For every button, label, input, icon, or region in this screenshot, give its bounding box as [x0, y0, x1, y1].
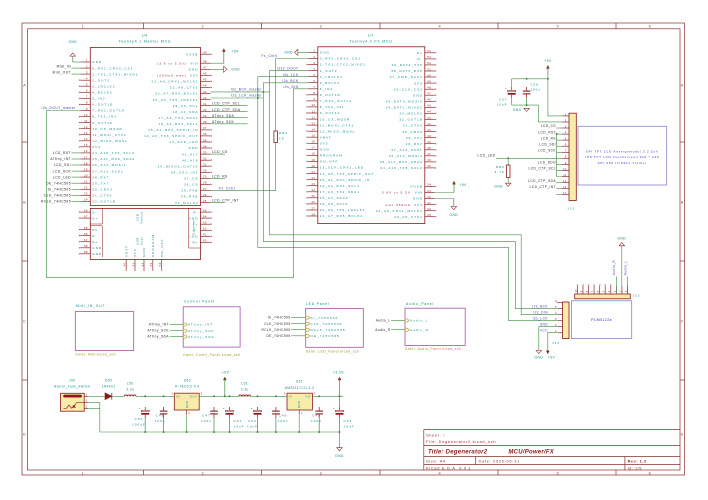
svg-text:2: 2 — [202, 24, 205, 28]
svg-text:GND: GND — [494, 185, 503, 189]
svg-text:10: 10 — [84, 113, 88, 117]
svg-text:GND: GND — [449, 213, 458, 217]
svg-text:29: 29 — [427, 213, 431, 217]
svg-text:C47: C47 — [202, 413, 211, 417]
svg-text:35_FXB: 35_FXB — [181, 189, 198, 193]
svg-text:D-: D- — [418, 57, 423, 61]
svg-text:19: 19 — [311, 158, 315, 162]
svg-text:45: 45 — [203, 78, 207, 82]
svg-text:7: 7 — [313, 85, 315, 89]
svg-text:9: 9 — [86, 107, 88, 111]
svg-text:38_CS1_IN1: 38_CS1_IN1 — [171, 171, 199, 175]
junction GND rail — [318, 431, 320, 433]
svg-text:Ethernet: Ethernet — [192, 219, 196, 234]
junction C49 — [318, 395, 320, 397]
svg-text:17: 17 — [84, 155, 88, 159]
title block — [424, 430, 680, 471]
svg-text:Device: Device — [140, 211, 144, 223]
svg-text:3: 3 — [86, 399, 88, 403]
svg-text:25: 25 — [311, 194, 315, 198]
svg-text:U50: U50 — [184, 379, 191, 383]
svg-text:Audio_Panel: Audio_Panel — [406, 302, 434, 306]
capacitor C49 100n — [311, 407, 323, 432]
label RCLK_74HC595 at LED Panel — [261, 328, 305, 332]
svg-text:A: A — [681, 83, 684, 87]
svg-text:I2s_BCK: I2s_BCK — [532, 304, 548, 308]
svg-text:20: 20 — [311, 164, 315, 168]
svg-text:64: 64 — [203, 214, 207, 218]
svg-text:46: 46 — [203, 72, 207, 76]
svg-text:3.6V to 5.5V: 3.6V to 5.5V — [382, 191, 411, 195]
svg-text:R-: R- — [193, 210, 198, 214]
svg-text:J12: J12 — [633, 294, 641, 298]
svg-text:3V3: 3V3 — [320, 142, 329, 146]
wire caps bottom rail to J11 pin2 — [512, 98, 562, 122]
svg-text:37_CS: 37_CS — [184, 177, 198, 181]
svg-text:GND: GND — [297, 401, 301, 408]
svg-text:53: 53 — [427, 55, 431, 59]
svg-text:(250mA max): (250mA max) — [157, 74, 186, 78]
ground GND above J12 — [617, 236, 626, 245]
svg-text:D: D — [23, 432, 26, 436]
wire I2s_DOUT_master : U4 pin9 to U7 pin7 I2s_DIN — [46, 89, 307, 278]
label LCD_CTP_SDA at J11 pin 12 — [528, 179, 562, 183]
svg-text:SI_74HC595: SI_74HC595 — [48, 188, 71, 192]
svg-text:3.3u: 3.3u — [241, 387, 249, 391]
wire U50 OUT to +5V rail — [199, 395, 343, 397]
svg-text:D+: D+ — [417, 51, 423, 55]
mcu U4 Teensy4.1 Master MCU — [79, 34, 212, 271]
svg-text:ATtiny_SDA: ATtiny_SDA — [188, 335, 215, 339]
svg-text:36: 36 — [427, 158, 431, 162]
svg-text:LCD_SCK: LCD_SCK — [538, 149, 556, 153]
svg-text:RCLK_74HC595: RCLK_74HC595 — [311, 328, 346, 332]
svg-text:23: 23 — [84, 192, 88, 196]
svg-text:29_TX7: 29_TX7 — [92, 181, 109, 185]
svg-text:31: 31 — [427, 201, 431, 205]
svg-text:GND: GND — [185, 401, 189, 408]
wire U51 GND to rail — [298, 414, 300, 432]
svg-text:1K: 1K — [279, 136, 285, 140]
svg-text:2_OUT2: 2_OUT2 — [320, 69, 338, 73]
svg-text:LCD_SDO: LCD_SDO — [538, 161, 556, 165]
svg-text:Audio_L: Audio_L — [623, 260, 627, 275]
svg-text:6: 6 — [649, 24, 652, 28]
svg-text:27_A13_SCK1: 27_A13_SCK1 — [92, 169, 123, 173]
svg-text:24: 24 — [84, 198, 88, 202]
svg-text:40_A16: 40_A16 — [182, 158, 199, 162]
svg-text:11_MOSI_CTX1: 11_MOSI_CTX1 — [320, 123, 354, 127]
svg-text:6: 6 — [565, 143, 567, 147]
svg-text:6_OUT1D: 6_OUT1D — [320, 93, 341, 97]
svg-text:Audio_L: Audio_L — [410, 319, 428, 323]
svg-text:CLK_74HC595: CLK_74HC595 — [264, 322, 290, 326]
svg-text:14: 14 — [311, 128, 315, 132]
svg-text:max 250mA: max 250mA — [385, 203, 411, 207]
svg-text:+5V: +5V — [544, 59, 552, 63]
svg-text:27_A13_SCK1: 27_A13_SCK1 — [391, 148, 422, 152]
svg-text:44: 44 — [427, 110, 431, 114]
ground GND power rail — [335, 448, 344, 458]
svg-text:32_OUT1B: 32_OUT1B — [399, 118, 422, 122]
svg-text:3V3: 3V3 — [190, 74, 199, 78]
label LCD_SDI at J11 pin 6 — [539, 142, 562, 146]
svg-text:SI_74HC595: SI_74HC595 — [268, 316, 291, 320]
svg-text:42: 42 — [203, 96, 207, 100]
svg-text:Midi_OUT: Midi_OUT — [53, 70, 71, 74]
svg-text:18: 18 — [311, 152, 315, 156]
svg-text:(3.6 to 5.5v): (3.6 to 5.5v) — [157, 61, 187, 65]
svg-text:38: 38 — [203, 120, 207, 124]
svg-text:41_A17: 41_A17 — [182, 152, 199, 156]
svg-text:51: 51 — [427, 67, 431, 71]
svg-text:28_RX7: 28_RX7 — [92, 175, 109, 179]
svg-text:28_RX7: 28_RX7 — [406, 142, 423, 146]
svg-text:B: B — [23, 200, 26, 204]
svg-text:3V3: 3V3 — [414, 81, 423, 85]
svg-text:1: 1 — [86, 58, 88, 62]
svg-text:39_DAT2_TX5: 39_DAT2_TX5 — [392, 63, 423, 67]
label LCD_CS at J11 pin 3 — [541, 124, 562, 128]
label LCD_CTP_SCL — [211, 102, 248, 106]
svg-text:4_BCLK2: 4_BCLK2 — [92, 91, 112, 95]
svg-text:4: 4 — [608, 290, 611, 292]
junction +5V riser — [547, 78, 549, 80]
svg-text:+: + — [333, 406, 335, 410]
svg-text:Audio_R: Audio_R — [410, 328, 429, 332]
svg-text:55: 55 — [84, 226, 88, 230]
svg-text:5: 5 — [555, 305, 557, 309]
svg-text:RCLK_74HC595: RCLK_74HC595 — [261, 328, 290, 332]
power +5V rail riser — [222, 371, 230, 397]
svg-text:R+: R+ — [192, 241, 198, 245]
svg-text:62: 62 — [203, 227, 207, 231]
svg-text:RB3: RB3 — [279, 131, 288, 135]
svg-text:7: 7 — [86, 95, 88, 99]
svg-text:13: 13 — [563, 185, 567, 189]
svg-text:67: 67 — [84, 214, 88, 218]
svg-text:9: 9 — [313, 97, 315, 101]
svg-text:11: 11 — [312, 109, 316, 113]
svg-text:37: 37 — [427, 152, 431, 156]
svg-text:10_CS_MQSR: 10_CS_MQSR — [92, 127, 122, 131]
svg-text:Datei: LED_Panel.kicad_sch: Datei: LED_Panel.kicad_sch — [306, 349, 359, 353]
svg-text:+5V: +5V — [232, 50, 240, 54]
svg-text:3: 3 — [555, 317, 557, 321]
svg-text:VIN: VIN — [190, 61, 198, 65]
svg-text:C50: C50 — [135, 417, 144, 421]
junction J11 pin4 — [556, 133, 558, 135]
svg-text:14: 14 — [84, 137, 88, 141]
svg-text:GND: GND — [413, 197, 423, 201]
svg-text:LCD_CTP_INT: LCD_CTP_INT — [530, 185, 556, 189]
junction GND rail — [229, 431, 231, 433]
svg-text:+5V: +5V — [548, 356, 556, 360]
svg-text:LCD_SDI: LCD_SDI — [54, 163, 71, 167]
wire I2s_BCK_master U4 pin43 — [211, 91, 270, 93]
svg-text:1: 1 — [171, 392, 173, 396]
svg-text:2: 2 — [202, 471, 205, 475]
wire GND J12 pin2 — [621, 246, 623, 294]
label SI_74HC595 — [48, 188, 81, 192]
svg-text:4: 4 — [555, 311, 557, 315]
svg-text:1: 1 — [313, 49, 315, 53]
svg-text:33_MCLK2: 33_MCLK2 — [175, 201, 198, 205]
label LCD_RST — [53, 151, 80, 155]
svg-text:LCD_CTP_SDA: LCD_CTP_SDA — [528, 179, 556, 183]
svg-text:20_A6_TX5_LRCLK1: 20_A6_TX5_LRCLK1 — [320, 208, 366, 212]
svg-text:13_SCK_LED: 13_SCK_LED — [169, 140, 198, 144]
svg-text:Datei: Audio_Panel.kicad_sch: Datei: Audio_Panel.kicad_sch — [405, 347, 461, 351]
svg-text:100n: 100n — [530, 87, 541, 91]
ground GND below RB2 — [494, 183, 511, 188]
svg-text:36_CLK_CS2: 36_CLK_CS2 — [394, 87, 423, 91]
svg-text:40: 40 — [427, 134, 431, 138]
wire +5V rail to caps and J11 pin1 — [512, 79, 562, 116]
label ATtiny_SDA — [211, 114, 248, 118]
svg-text:16: 16 — [84, 149, 88, 153]
svg-text:59: 59 — [84, 250, 88, 254]
svg-text:29: 29 — [203, 175, 207, 179]
junction GND rail — [257, 431, 259, 433]
junction GND rail — [186, 431, 188, 433]
inductor L51 3.3u — [239, 381, 251, 396]
module PCM5122a note box — [571, 301, 631, 339]
svg-text:6: 6 — [597, 290, 600, 292]
svg-text:22_A8_CTX1: 22_A8_CTX1 — [394, 215, 423, 219]
svg-text:14_A0_TX3_SPDIF_OUT: 14_A0_TX3_SPDIF_OUT — [320, 172, 374, 176]
svg-text:12_MISO_MQSL: 12_MISO_MQSL — [320, 129, 356, 133]
svg-text:31_CTX3: 31_CTX3 — [403, 124, 423, 128]
svg-text:2: 2 — [86, 404, 88, 408]
svg-text:C46: C46 — [156, 413, 165, 417]
capacitor C57 10uF — [496, 79, 515, 107]
svg-text:52: 52 — [140, 262, 144, 266]
junction GND rail — [144, 431, 146, 433]
svg-text:32_OUT1B: 32_OUT1B — [92, 200, 115, 204]
inductor L50 3.3u — [124, 381, 136, 396]
capacitor C56 100n — [523, 82, 541, 98]
svg-text:9_OUT1C: 9_OUT1C — [92, 121, 113, 125]
svg-text:GND: GND — [68, 40, 77, 44]
connector J50 Barrel_Jack_Switch — [54, 379, 90, 412]
svg-text:18: 18 — [84, 161, 88, 165]
svg-text:D-: D- — [92, 234, 97, 238]
svg-text:50: 50 — [123, 262, 127, 266]
svg-text:3_LRCLK2: 3_LRCLK2 — [320, 75, 343, 79]
ground GND below J13 — [534, 350, 543, 359]
svg-text:18_A4_SDA0: 18_A4_SDA0 — [320, 196, 349, 200]
svg-text:D+: D+ — [92, 216, 98, 220]
svg-text:22: 22 — [311, 176, 315, 180]
wire rail to GND symbol — [339, 432, 341, 448]
svg-text:LCD_SCK: LCD_SCK — [53, 169, 72, 173]
junction C51 — [229, 395, 231, 397]
svg-text:33_MCLK2: 33_MCLK2 — [399, 112, 422, 116]
label LCD_LED wire to J11 pin8 — [478, 154, 563, 159]
svg-text:10: 10 — [575, 289, 578, 293]
svg-text:AMS1117CO-3.3: AMS1117CO-3.3 — [285, 386, 315, 390]
svg-text:LCD_RST: LCD_RST — [538, 130, 556, 134]
svg-text:C51: C51 — [234, 419, 243, 423]
svg-text:5: 5 — [557, 471, 560, 475]
wire I2s2_DOUT U7 pin4 to J13 pin4 — [270, 71, 559, 315]
svg-text:5_IN2: 5_IN2 — [92, 97, 105, 101]
svg-text:11: 11 — [84, 119, 88, 123]
svg-text:5: 5 — [86, 83, 88, 87]
svg-text:ATtiny_SCK: ATtiny_SCK — [147, 329, 169, 333]
no-connect J12 — [605, 285, 606, 286]
svg-text:7_RX2_OUT1A: 7_RX2_OUT1A — [320, 99, 353, 103]
wire U4 pin47 to GND — [211, 68, 224, 70]
svg-text:38: 38 — [427, 146, 431, 150]
svg-text:11_MOSI_CTX1: 11_MOSI_CTX1 — [92, 133, 126, 137]
svg-text:GND: GND — [189, 146, 199, 150]
svg-text:8: 8 — [565, 155, 567, 159]
svg-text:48: 48 — [427, 86, 431, 90]
svg-text:VUSB: VUSB — [186, 52, 198, 56]
svg-text:C48: C48 — [279, 413, 288, 417]
svg-text:Sheet: /: Sheet: / — [426, 432, 445, 437]
svg-text:19_A5_SCL0: 19_A5_SCL0 — [320, 202, 348, 206]
svg-text:ATtiny_INT: ATtiny_INT — [50, 157, 71, 161]
svg-text:47: 47 — [203, 66, 207, 70]
svg-text:VBAT: VBAT — [320, 135, 332, 139]
svg-text:21_A7_RX5_BCLK1: 21_A7_RX5_BCLK1 — [320, 214, 363, 218]
svg-text:24_A10_TX6_SCL2: 24_A10_TX6_SCL2 — [92, 151, 135, 155]
svg-text:33: 33 — [203, 150, 207, 154]
svg-text:OE_74HC595: OE_74HC595 — [46, 181, 71, 185]
svg-text:Audio_L: Audio_L — [376, 319, 391, 323]
label ATtiny_INT — [50, 157, 80, 161]
label LCD_CTP_INT at J11 pin 13 — [530, 185, 562, 189]
svg-text:3: 3 — [320, 24, 323, 28]
svg-text:27: 27 — [311, 206, 315, 210]
wire Fx_Cntrl U4 pin27 to RB3 — [211, 143, 276, 191]
svg-text:Host: Host — [140, 237, 144, 245]
svg-text:LCD_RS: LCD_RS — [541, 136, 556, 140]
svg-text:Audio_R: Audio_R — [612, 260, 616, 276]
label LCD_SDO at J11 pin 9 — [538, 161, 562, 165]
svg-text:3: 3 — [284, 392, 286, 396]
sheet LED Panel — [306, 302, 364, 354]
svg-text:44: 44 — [203, 84, 207, 88]
svg-text:52: 52 — [427, 61, 431, 65]
sheet Control Panel — [183, 299, 240, 356]
svg-text:35: 35 — [427, 164, 431, 168]
svg-text:41: 41 — [203, 102, 207, 106]
svg-text:IN: IN — [176, 395, 180, 399]
svg-text:PROGRAM: PROGRAM — [320, 154, 343, 158]
svg-text:LCD_RS: LCD_RS — [212, 174, 228, 178]
svg-text:10: 10 — [563, 167, 567, 171]
svg-text:19: 19 — [84, 167, 88, 171]
wire J11 pin4 to pin11 tie — [557, 134, 562, 177]
svg-text:L51: L51 — [241, 381, 248, 385]
label Midi_OUT — [53, 70, 81, 74]
label OE_74HC595 — [46, 181, 80, 185]
svg-text:30: 30 — [203, 169, 207, 173]
svg-text:LCD_LED: LCD_LED — [53, 175, 71, 179]
svg-text:GND: GND — [189, 68, 199, 72]
svg-text:12: 12 — [84, 125, 88, 129]
svg-text:8: 8 — [86, 101, 88, 105]
svg-text:Midi_IN: Midi_IN — [57, 64, 71, 68]
svg-text:54: 54 — [427, 49, 431, 53]
svg-text:31_CTX3: 31_CTX3 — [92, 194, 112, 198]
svg-text:PCM5122a: PCM5122a — [591, 318, 612, 322]
svg-text:45: 45 — [427, 104, 431, 108]
svg-text:+3.3V: +3.3V — [333, 371, 344, 375]
connector J12 10-pin — [575, 286, 641, 299]
svg-text:3: 3 — [86, 70, 88, 74]
svg-text:I2s_BCK: I2s_BCK — [282, 79, 299, 83]
label LCD_CS — [211, 150, 229, 154]
svg-text:L50: L50 — [127, 381, 134, 385]
junction +5V riser — [224, 395, 226, 397]
svg-text:34_DAT1_MISO2: 34_DAT1_MISO2 — [386, 106, 423, 110]
connector J11 LCD 14-pin — [562, 112, 576, 210]
svg-text:D50: D50 — [105, 379, 112, 383]
svg-text:7: 7 — [565, 149, 567, 153]
no-connect J12 — [610, 285, 611, 286]
svg-text:65: 65 — [203, 208, 207, 212]
svg-text:GND: GND — [540, 323, 549, 327]
junction C56 top — [526, 78, 528, 80]
svg-text:Midi_IN_OUT: Midi_IN_OUT — [76, 304, 105, 308]
svg-text:40: 40 — [203, 108, 207, 112]
svg-text:I2s_LCK: I2s_LCK — [533, 317, 549, 321]
svg-text:2: 2 — [188, 411, 190, 415]
svg-text:24_A10_TX8_SCL2: 24_A10_TX8_SCL2 — [380, 166, 423, 170]
svg-text:61: 61 — [203, 233, 207, 237]
label ATtiny_SDA at Control Panel — [147, 335, 183, 339]
svg-text:GND: GND — [92, 246, 102, 250]
svg-text:25: 25 — [203, 199, 207, 203]
label LCD_SCK at J11 pin 7 — [538, 149, 562, 153]
svg-text:56: 56 — [84, 232, 88, 236]
svg-text:C52: C52 — [248, 419, 257, 423]
wire U50 GND to rail — [186, 414, 188, 432]
diode D50 1N4001 — [102, 379, 116, 400]
svg-text:4_BCLK2: 4_BCLK2 — [320, 81, 340, 85]
capacitor C50 100uF — [132, 406, 149, 432]
svg-text:66: 66 — [84, 208, 88, 212]
svg-text:1: 1 — [301, 411, 303, 415]
svg-text:C: C — [23, 319, 26, 323]
mcu U7 Teensy4.0 FX MCU — [306, 34, 436, 224]
svg-text:Teensy4.1 Master MCU: Teensy4.1 Master MCU — [119, 40, 172, 44]
svg-text:1: 1 — [86, 392, 88, 396]
junction C50 top — [144, 395, 146, 397]
svg-text:D+: D+ — [92, 240, 98, 244]
junction GND rail C53 — [339, 431, 341, 433]
capacitor C48 100n — [272, 407, 288, 432]
svg-text:3_LRCLK2: 3_LRCLK2 — [92, 84, 115, 88]
svg-text:1: 1 — [565, 112, 567, 116]
svg-text:J13: J13 — [552, 341, 560, 345]
svg-text:25_A11_RX6_SDA2: 25_A11_RX6_SDA2 — [380, 160, 423, 164]
label LCD_CTP_SDA — [211, 108, 248, 112]
wire RB3 to U7 pin2 — [276, 59, 308, 132]
svg-text:C56: C56 — [530, 82, 539, 86]
svg-text:10_CS_MQSR: 10_CS_MQSR — [320, 117, 350, 121]
svg-text:2: 2 — [565, 118, 567, 122]
label ATtiny_SCK at Control Panel — [147, 329, 183, 333]
svg-text:39: 39 — [203, 114, 207, 118]
svg-text:ATtiny_INT: ATtiny_INT — [188, 323, 213, 327]
label OE_74HC595 at LED Panel — [266, 334, 305, 338]
